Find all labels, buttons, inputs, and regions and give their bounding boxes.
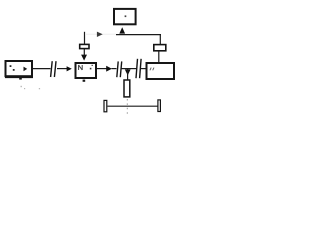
source block V1	[5, 61, 33, 77]
wire junction to R3	[127, 69, 129, 80]
dashed wire R3 to ground bar	[126, 99, 128, 115]
resistor R1	[80, 44, 89, 48]
capacitor C3	[136, 59, 141, 78]
faint bias wire	[85, 33, 116, 35]
wire C3 to load	[141, 68, 146, 70]
arrow into U1 top	[81, 55, 87, 61]
source V1 arrow mark	[24, 67, 28, 72]
wire rail down to R2	[159, 35, 161, 45]
wire R2 to load	[158, 51, 160, 63]
U1 label	[79, 65, 83, 70]
supply rail wire	[116, 34, 161, 36]
wire above R1	[84, 32, 86, 45]
junction arrow down	[125, 69, 131, 75]
arrow on bias wire	[97, 32, 103, 37]
B1 label dot	[125, 15, 127, 17]
ground bar	[108, 105, 159, 107]
ground bar left terminal	[104, 100, 107, 111]
Z1 label	[150, 68, 154, 71]
load block Z1	[147, 63, 175, 79]
U1 ground pin	[83, 80, 86, 82]
arrow on output wire	[106, 66, 112, 72]
wire V1 to C1	[33, 68, 51, 70]
U1 label dots	[90, 65, 93, 70]
resistor R2	[154, 45, 166, 51]
capacitor C2	[117, 61, 122, 77]
arrow into B1 bottom	[119, 27, 125, 33]
wire U1 output	[97, 68, 107, 70]
source V1 ground pin	[19, 77, 22, 79]
wire R1 to arrow	[83, 49, 85, 56]
wire C2 to C3	[122, 68, 137, 70]
arrow into U1	[67, 66, 72, 71]
resistor R3	[124, 80, 130, 97]
supply block B1	[114, 9, 136, 24]
wire to C2	[112, 68, 117, 70]
source V1 waveform mark	[10, 65, 15, 71]
amplifier block U1	[76, 63, 97, 78]
ground bar right terminal	[158, 100, 161, 112]
stray label dots	[21, 86, 41, 90]
wire C1 to U1	[57, 68, 68, 70]
capacitor C1	[51, 61, 56, 77]
